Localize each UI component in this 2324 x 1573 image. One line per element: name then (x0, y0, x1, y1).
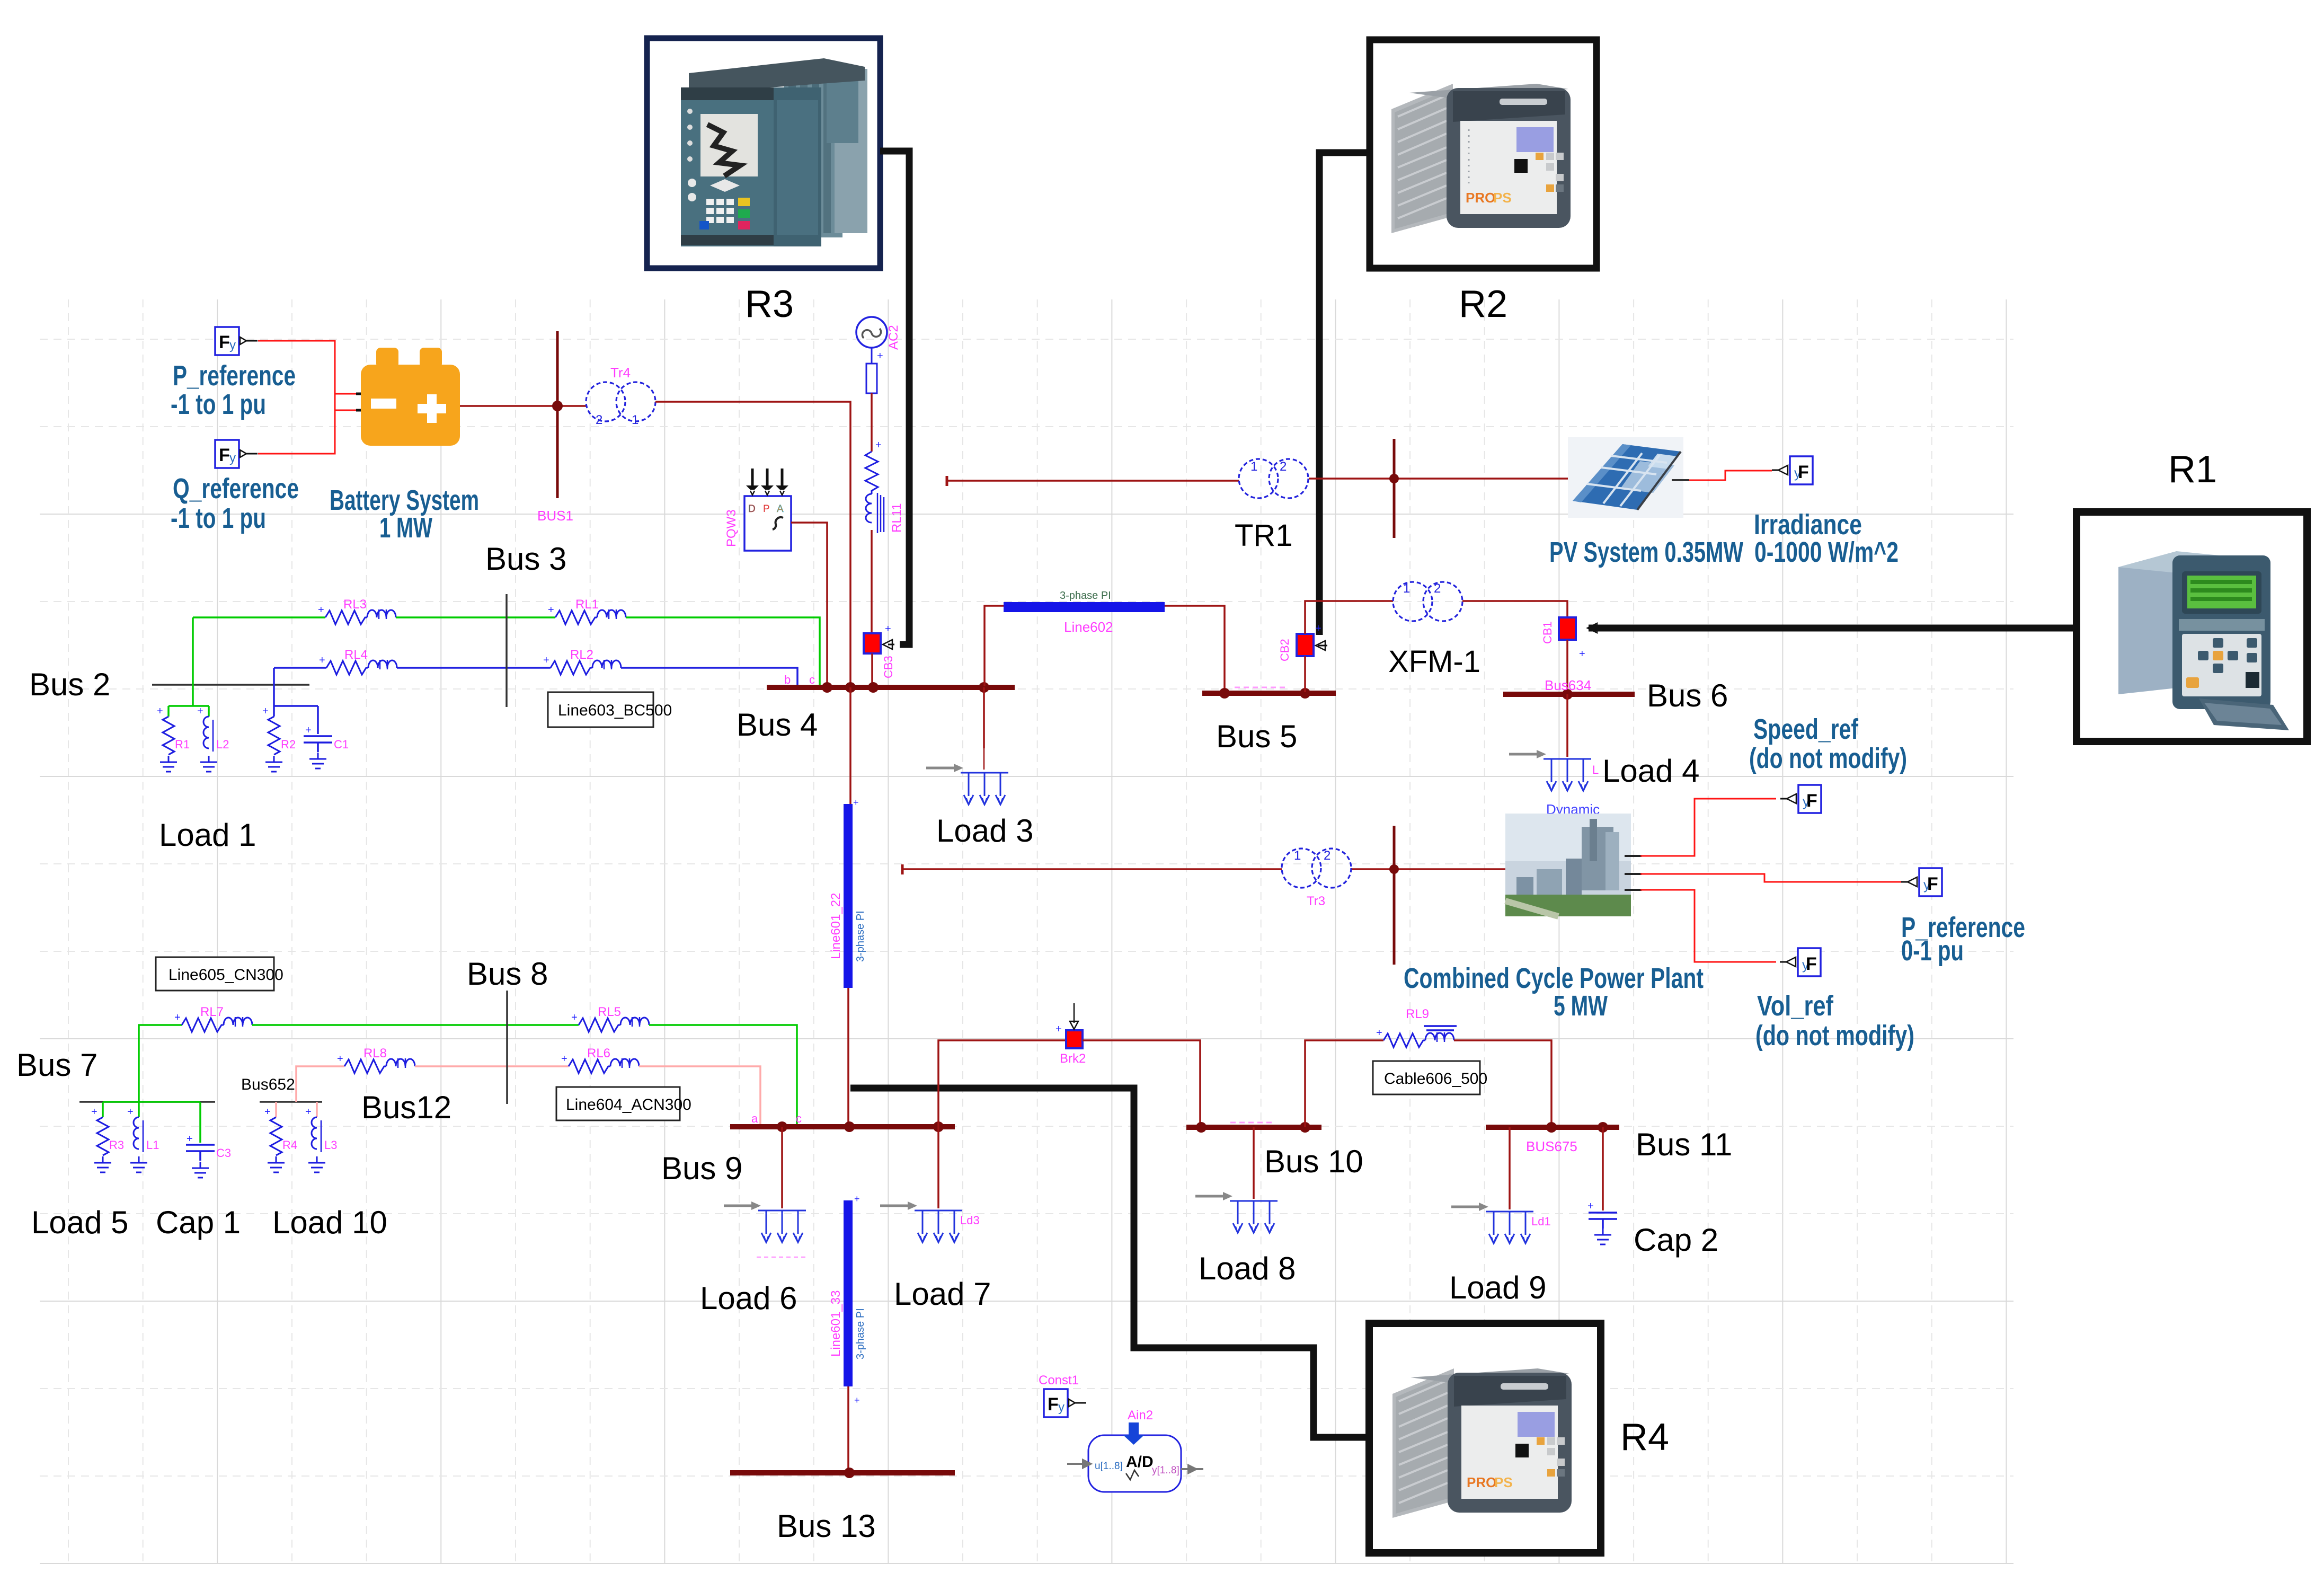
bus Bus 9 (730, 1124, 955, 1129)
load Load 1 wiring (blue) (274, 668, 318, 734)
svg-text:A/D: A/D (1126, 1453, 1154, 1471)
svg-text:c: c (809, 673, 815, 686)
svg-text:2: 2 (1434, 581, 1441, 596)
svg-text:Bus 13: Bus 13 (777, 1508, 876, 1544)
cable RL9 (1376, 1027, 1454, 1047)
svg-text:R1: R1 (175, 738, 190, 751)
capacitor C1 (304, 736, 332, 752)
svg-text:PS: PS (1494, 1474, 1513, 1490)
svg-text:RL2: RL2 (570, 648, 593, 662)
svg-text:Tr4: Tr4 (610, 365, 631, 381)
resistor R4 (270, 1117, 282, 1155)
wire pink RL6 to Bus9 (639, 1066, 760, 1125)
svg-text:R3: R3 (745, 283, 794, 325)
wire Tr3 to plant (1352, 868, 1505, 870)
power plant image (combined cycle) (1505, 814, 1631, 916)
wire thick black CB1 to R1 (1589, 625, 2077, 632)
breaker Brk2 (1066, 1030, 1083, 1048)
bus Bus652 (horizontal line) (260, 1101, 322, 1103)
svg-text:C3: C3 (216, 1146, 231, 1160)
svg-text:+: + (885, 623, 891, 635)
wire TR1 to PV system (1309, 478, 1568, 480)
svg-text:+: + (875, 439, 882, 451)
svg-text:Cap 1: Cap 1 (156, 1205, 241, 1240)
svg-text:Ld1: Ld1 (1531, 1215, 1551, 1228)
resistor (source impedance box) (866, 364, 877, 393)
inductor L2 (203, 717, 213, 752)
ground (200, 756, 217, 772)
svg-text:Bus 8: Bus 8 (467, 956, 548, 992)
svg-text:a: a (751, 1112, 758, 1125)
svg-text:+: + (1579, 648, 1585, 660)
svg-text:BUS1: BUS1 (537, 508, 573, 524)
wire Brk2 to Bus10 (1083, 1040, 1200, 1125)
wire CB2 to Bus5 and to XFM-1 (1305, 601, 1393, 692)
svg-text:L3: L3 (324, 1138, 337, 1152)
svg-text:c: c (796, 1112, 802, 1125)
relay R3 (framed photo) (647, 38, 880, 268)
svg-text:2: 2 (1324, 849, 1330, 863)
line Line601_33 (3-phase PI bar) (844, 1200, 853, 1386)
svg-text:Battery System: Battery System (330, 484, 479, 516)
label box Line603_BC500 (548, 692, 653, 727)
ground (265, 756, 282, 772)
svg-text:+: + (264, 1106, 271, 1118)
svg-text:Cable606_500: Cable606_500 (1384, 1070, 1487, 1088)
wire green phase Bus2 area to Bus4 (Line603 c-phase) (193, 616, 325, 618)
relay R4 (framed photo) (1369, 1323, 1601, 1553)
ground (130, 1156, 147, 1172)
transformer Tr4 (586, 382, 655, 421)
wire green Bus7 to RL7 (139, 1025, 182, 1102)
wire thick black R3 to CB3 (880, 151, 909, 641)
svg-text:Q_reference: Q_reference (173, 473, 299, 505)
relay R2 (framed photo) (1370, 40, 1596, 268)
svg-text:C1: C1 (334, 738, 349, 751)
bus Bus 5 (1202, 691, 1336, 696)
svg-text:Ain2: Ain2 (1128, 1408, 1153, 1422)
transformer Tr3 (1282, 849, 1351, 888)
svg-text:RL11: RL11 (890, 503, 904, 533)
wire Bus10 down to Load 8 (1253, 1127, 1255, 1199)
wire Bus9 down to Load 7 (937, 1127, 939, 1208)
svg-text:Bus 4: Bus 4 (737, 707, 818, 743)
svg-text:XFM-1: XFM-1 (1388, 644, 1480, 679)
svg-text:3-phase PI: 3-phase PI (1060, 590, 1111, 602)
svg-text:PV System 0.35MW: PV System 0.35MW (1549, 536, 1743, 568)
capacitor C3 (186, 1145, 215, 1161)
label box Line604_ACN300 (556, 1087, 680, 1120)
svg-text:Load 3: Load 3 (936, 813, 1034, 849)
bus BUS1 (vertical bar) (556, 331, 559, 498)
svg-text:P: P (763, 503, 770, 515)
resistor R1 (163, 717, 174, 755)
ground (309, 753, 326, 768)
svg-text:R4: R4 (1620, 1416, 1669, 1459)
svg-text:CB3: CB3 (882, 656, 895, 678)
inductor RL8 (337, 1053, 415, 1073)
svg-text:+: + (157, 705, 163, 717)
svg-text:Brk2: Brk2 (1060, 1051, 1086, 1066)
svg-text:+: + (854, 1395, 860, 1406)
wire Bus9 to Brk2 (938, 1040, 1065, 1127)
svg-text:R1: R1 (2168, 448, 2217, 491)
svg-text:+: + (305, 1106, 312, 1118)
svg-text:RL7: RL7 (200, 1005, 224, 1019)
breaker CB2 (1297, 634, 1314, 656)
wire plant to P_reference (1640, 874, 1901, 882)
svg-text:Bus12: Bus12 (361, 1090, 451, 1125)
label box Cable606_500 (1373, 1061, 1480, 1094)
svg-text:Line601_33: Line601_33 (829, 1291, 843, 1357)
svg-text:+: + (1055, 1023, 1062, 1035)
load wiring on Bus7 (green) (103, 1102, 200, 1143)
bus Bus 8 (vertical tick) (506, 991, 508, 1104)
svg-text:R2: R2 (281, 738, 296, 751)
wire blue RL4 to RL2 (397, 667, 551, 669)
svg-text:5 MW: 5 MW (1554, 990, 1608, 1022)
wire thick black Line601 tap to R4 (850, 1088, 1369, 1437)
svg-text:-1 to 1 pu: -1 to 1 pu (171, 502, 266, 534)
bus Bus 13 (730, 1470, 955, 1475)
load Load 8 (1195, 1192, 1278, 1233)
inductor RL7 (174, 1012, 252, 1032)
svg-text:L: L (1592, 763, 1599, 776)
svg-text:Bus 6: Bus 6 (1647, 678, 1728, 713)
wire Tr3 feeder (terminal to Tr3) (901, 864, 904, 874)
svg-text:+: + (877, 350, 883, 362)
svg-text:3-phase PI: 3-phase PI (855, 911, 866, 962)
svg-text:Line604_ACN300: Line604_ACN300 (566, 1096, 691, 1114)
transformer XFM-1 (1393, 582, 1462, 621)
svg-text:RL9: RL9 (1406, 1007, 1429, 1021)
vF source Vol_ref (1780, 948, 1821, 976)
breaker CB1 (1559, 617, 1576, 640)
svg-text:1: 1 (632, 413, 638, 427)
svg-text:Line601_22: Line601_22 (829, 893, 843, 959)
svg-text:Line605_CN300: Line605_CN300 (168, 966, 283, 984)
inductor RL2 (543, 655, 621, 675)
wire Fy outputs to battery (red) (258, 341, 335, 454)
svg-text:RL5: RL5 (598, 1005, 621, 1019)
svg-text:Const1: Const1 (1039, 1373, 1079, 1388)
capacitor Cap 2 (1589, 1213, 1617, 1229)
battery system icon (361, 348, 460, 446)
background grid (decorative) (40, 299, 2013, 1563)
svg-text:Bus634: Bus634 (1545, 677, 1591, 693)
svg-text:+: + (127, 1106, 134, 1118)
wire Tr4 to Bus4 (655, 402, 850, 685)
svg-text:+: + (1587, 1200, 1594, 1212)
svg-text:BUS675: BUS675 (1526, 1138, 1577, 1154)
svg-text:Combined Cycle Power Plant: Combined Cycle Power Plant (1404, 962, 1704, 994)
svg-text:1 MW: 1 MW (379, 512, 432, 544)
svg-text:Ld3: Ld3 (960, 1214, 980, 1227)
source AC2 (856, 317, 887, 348)
line Line601_22 (3-phase PI bar) (844, 804, 853, 988)
A/D converter Ain2 (1067, 1408, 1203, 1492)
load Load 7 (880, 1201, 962, 1242)
svg-text:PRO: PRO (1467, 1474, 1496, 1490)
svg-text:Bus 9: Bus 9 (661, 1151, 742, 1186)
load Load 9 (1451, 1203, 1533, 1243)
svg-text:D: D (748, 503, 756, 515)
ground (192, 1162, 209, 1178)
svg-text:Speed_ref: Speed_ref (1753, 713, 1859, 745)
svg-text:PS: PS (1493, 190, 1512, 206)
inductor RL4 (319, 655, 397, 675)
load Load 3 (926, 764, 1008, 805)
inductor L3 (312, 1117, 321, 1152)
svg-text:1: 1 (1250, 459, 1257, 474)
svg-text:PRO: PRO (1466, 190, 1495, 206)
svg-text:Bus 3: Bus 3 (485, 541, 566, 577)
inductor RL5 (571, 1012, 649, 1032)
svg-text:Load 4: Load 4 (1602, 753, 1700, 789)
svg-text:+: + (1315, 623, 1321, 634)
load Load 4 (dynamic) (1509, 750, 1591, 791)
wire thick black R2 to CB2 (1319, 153, 1370, 635)
svg-text:L1: L1 (146, 1138, 159, 1152)
wire CB1 to Bus6 (1566, 640, 1568, 693)
vF source Irradiance (1772, 456, 1813, 484)
wire blue RL2 to Bus4 (621, 668, 797, 686)
ground (160, 756, 177, 772)
relay R1 (framed photo) (2077, 512, 2307, 741)
wire Line601_33 to Bus13 (847, 1386, 849, 1473)
wire Bus4 up to Line602 (984, 606, 1004, 686)
svg-text:Load 8: Load 8 (1199, 1251, 1296, 1286)
wire green RL7 to RL5 (252, 1024, 579, 1026)
wire Bus4 down to Load 3 (983, 687, 985, 748)
svg-text:+: + (91, 1106, 97, 1118)
svg-text:Cap 2: Cap 2 (1634, 1222, 1718, 1258)
svg-text:+: + (854, 1194, 860, 1204)
wire pink RL8 to RL6 (415, 1065, 569, 1067)
ground (1594, 1229, 1611, 1244)
wire PQW3 to Bus4 (791, 523, 827, 685)
wire XFM-1 to CB1 (1462, 601, 1567, 617)
svg-text:Bus 10: Bus 10 (1264, 1144, 1363, 1179)
svg-text:R3: R3 (109, 1138, 124, 1152)
svg-text:Load 7: Load 7 (894, 1276, 991, 1312)
wire RL11 to CB3 (871, 530, 873, 633)
svg-text:2: 2 (1280, 459, 1287, 474)
svg-text:R2: R2 (1459, 283, 1507, 325)
ground (308, 1156, 325, 1172)
bus Bus 2 (horizontal line) (152, 684, 309, 686)
svg-text:RL8: RL8 (363, 1046, 387, 1061)
line Line602 (3-phase PI bar) (1004, 602, 1165, 612)
vF source Speed_ref (1780, 785, 1821, 813)
PV system image (1568, 437, 1683, 518)
label box Line605_CN300 (156, 957, 274, 991)
node junctions on Bus 4 (822, 682, 832, 693)
svg-text:0-1000 W/m^2: 0-1000 W/m^2 (1754, 536, 1899, 568)
svg-text:Line602: Line602 (1064, 619, 1113, 635)
svg-text:+: + (187, 1133, 193, 1145)
wire green RL3 to RL1 (396, 616, 555, 618)
load Load 1 wiring (green) (168, 617, 209, 717)
load wiring on Bus652 (pink) (276, 1102, 317, 1117)
wire to RL11 (871, 393, 873, 452)
svg-text:Bus 5: Bus 5 (1216, 719, 1297, 754)
constant block Const1 (1044, 1389, 1086, 1417)
inductor L1 (134, 1117, 143, 1152)
inductor RL3 (318, 604, 396, 624)
svg-text:+: + (305, 724, 312, 736)
wire TR1 feeder (terminal to TR1) (946, 476, 948, 486)
svg-text:Irradiance: Irradiance (1754, 509, 1862, 541)
resistor R2 (268, 717, 280, 755)
wire green RL1 to Bus4 (626, 617, 820, 686)
wire RL9 to Bus11 (1454, 1040, 1551, 1125)
meter block PQW3 (724, 469, 791, 551)
wire Bus4 down to Line601_22 (849, 687, 851, 804)
svg-text:Line603_BC500: Line603_BC500 (558, 702, 672, 719)
bus Bus 11 (1486, 1125, 1619, 1130)
bus Bus 3 (vertical tick) (505, 594, 508, 707)
bus Bus 4 (767, 685, 1015, 690)
bus Bus 10 (1186, 1125, 1321, 1130)
svg-text:(do not modify): (do not modify) (1755, 1020, 1914, 1051)
wire CB3 to Bus4 (871, 653, 873, 685)
svg-text:+: + (262, 705, 269, 717)
wire Bus9 down to Load 6 (781, 1127, 783, 1208)
svg-text:TR1: TR1 (1235, 518, 1293, 553)
svg-text:Tr3: Tr3 (1307, 894, 1325, 908)
svg-text:2: 2 (596, 413, 602, 427)
svg-text:PQW3: PQW3 (724, 509, 739, 547)
Fy source P_reference (215, 327, 258, 355)
svg-text:R4: R4 (282, 1138, 297, 1152)
svg-text:u[1..8]: u[1..8] (1095, 1461, 1123, 1472)
svg-text:1: 1 (1403, 581, 1410, 596)
ground (94, 1156, 111, 1172)
wire battery to BUS1 (460, 405, 587, 407)
svg-text:-1 to 1 pu: -1 to 1 pu (171, 388, 266, 420)
svg-text:Load 5: Load 5 (31, 1205, 129, 1240)
svg-text:3-phase PI: 3-phase PI (855, 1308, 866, 1359)
bus (vertical bar at plant feeder) (1393, 826, 1396, 965)
svg-text:RL4: RL4 (344, 648, 368, 662)
inductor RL6 (561, 1053, 639, 1073)
svg-text:+: + (853, 797, 859, 808)
resistor R3 (97, 1117, 109, 1155)
inductor-resistor RL11 (vertical) (865, 439, 904, 533)
wire plant to Vol_ref (1640, 890, 1776, 962)
svg-text:b: b (784, 673, 791, 686)
bus Bus 6 (1503, 692, 1635, 697)
svg-text:Bus652: Bus652 (241, 1076, 295, 1093)
bus Bus 7 (horizontal line) (79, 1101, 215, 1103)
bus (vertical bar at Bus5 top feeder) (1393, 439, 1396, 538)
transformer TR1 (1239, 459, 1308, 498)
wire pink Bus652 to RL8 (296, 1066, 344, 1102)
svg-text:Load 10: Load 10 (272, 1205, 387, 1240)
svg-text:(do not modify): (do not modify) (1749, 743, 1907, 774)
svg-text:Load 1: Load 1 (159, 817, 256, 853)
svg-text:CB2: CB2 (1278, 639, 1291, 661)
svg-text:Load 6: Load 6 (700, 1280, 797, 1316)
wire plant outputs (black stubs) (1625, 856, 1642, 890)
wire Line602 to Bus5 (1165, 606, 1225, 692)
svg-text:RL6: RL6 (587, 1046, 610, 1061)
wire Bus10 to RL9 (1305, 1040, 1383, 1127)
svg-text:RL3: RL3 (343, 597, 367, 612)
svg-text:0-1 pu: 0-1 pu (1901, 935, 1964, 967)
svg-text:L2: L2 (216, 738, 229, 751)
svg-text:Vol_ref: Vol_ref (1757, 990, 1834, 1022)
wire green RL5 to Bus9 (649, 1025, 797, 1125)
svg-text:Bus 2: Bus 2 (29, 667, 110, 702)
wire Bus6 down to Load 4 (1566, 694, 1568, 757)
svg-text:P_reference: P_reference (173, 360, 296, 392)
vF source P_reference (governor) (1901, 868, 1942, 896)
svg-text:A: A (777, 503, 784, 515)
svg-text:Bus 7: Bus 7 (16, 1047, 97, 1083)
node junction on BUS1 (552, 401, 563, 411)
svg-text:Load 9: Load 9 (1449, 1270, 1547, 1305)
svg-text:RL1: RL1 (575, 597, 599, 612)
wire Bus11 down to Load 9 (1509, 1127, 1511, 1209)
svg-text:AC2: AC2 (886, 325, 901, 350)
breaker CB3 (864, 633, 881, 653)
inductor RL1 (548, 604, 626, 624)
svg-text:1: 1 (1294, 849, 1301, 863)
svg-text:Bus 11: Bus 11 (1636, 1127, 1732, 1162)
wire plant to Speed_ref (1640, 799, 1776, 856)
load Load 6 (724, 1201, 806, 1242)
wire Bus11 down to Cap 2 (1602, 1127, 1604, 1210)
svg-text:y[1..8]: y[1..8] (1152, 1465, 1179, 1476)
wire Line601_22 to Bus9 (847, 988, 849, 1125)
wire blue phase Bus2 area to Bus4 (Line603 b-phase) (274, 667, 326, 669)
wire PV to Irradiance input (1672, 479, 1689, 481)
svg-text:+: + (197, 705, 203, 717)
ground (268, 1156, 285, 1172)
svg-text:CB1: CB1 (1541, 621, 1554, 644)
Fy source Q_reference (215, 440, 258, 468)
